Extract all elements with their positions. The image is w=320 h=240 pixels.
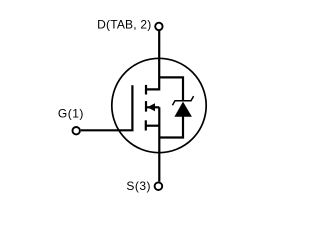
terminal D (pin TAB,2) (155, 23, 162, 30)
wire: diode anode lead down and left to source node (159, 116, 183, 138)
MOSFET Q1 gate plate and wire: gate lead (81, 85, 133, 130)
wire: branch from drain node to body diode cathode (159, 77, 183, 100)
arrow: body substrate arrow pointing to channel (147, 103, 155, 111)
diode D1 anode triangle (174, 102, 192, 117)
terminal G (pin 1) (73, 127, 80, 134)
svg-text:S(3): S(3) (126, 179, 151, 193)
wire: source contact to source node (146, 125, 159, 127)
MOSFET Q1 source channel bar (145, 120, 147, 130)
wire: body contact to source node (147, 106, 159, 108)
wire: source lead from body node down to terminal S (158, 107, 160, 181)
svg-text:D(TAB, 2): D(TAB, 2) (97, 18, 151, 32)
MOSFET Q1 drain channel bar (145, 85, 147, 95)
MOSFET Q1 body channel bar (145, 101, 147, 112)
terminal S (pin 3) (155, 182, 163, 190)
transistor body circle Q1 (112, 58, 206, 152)
wire: drain lead from terminal D down to drain contact (146, 31, 159, 90)
diode D1 cathode bar (zener style) (172, 96, 193, 105)
svg-text:G(1): G(1) (58, 106, 84, 120)
